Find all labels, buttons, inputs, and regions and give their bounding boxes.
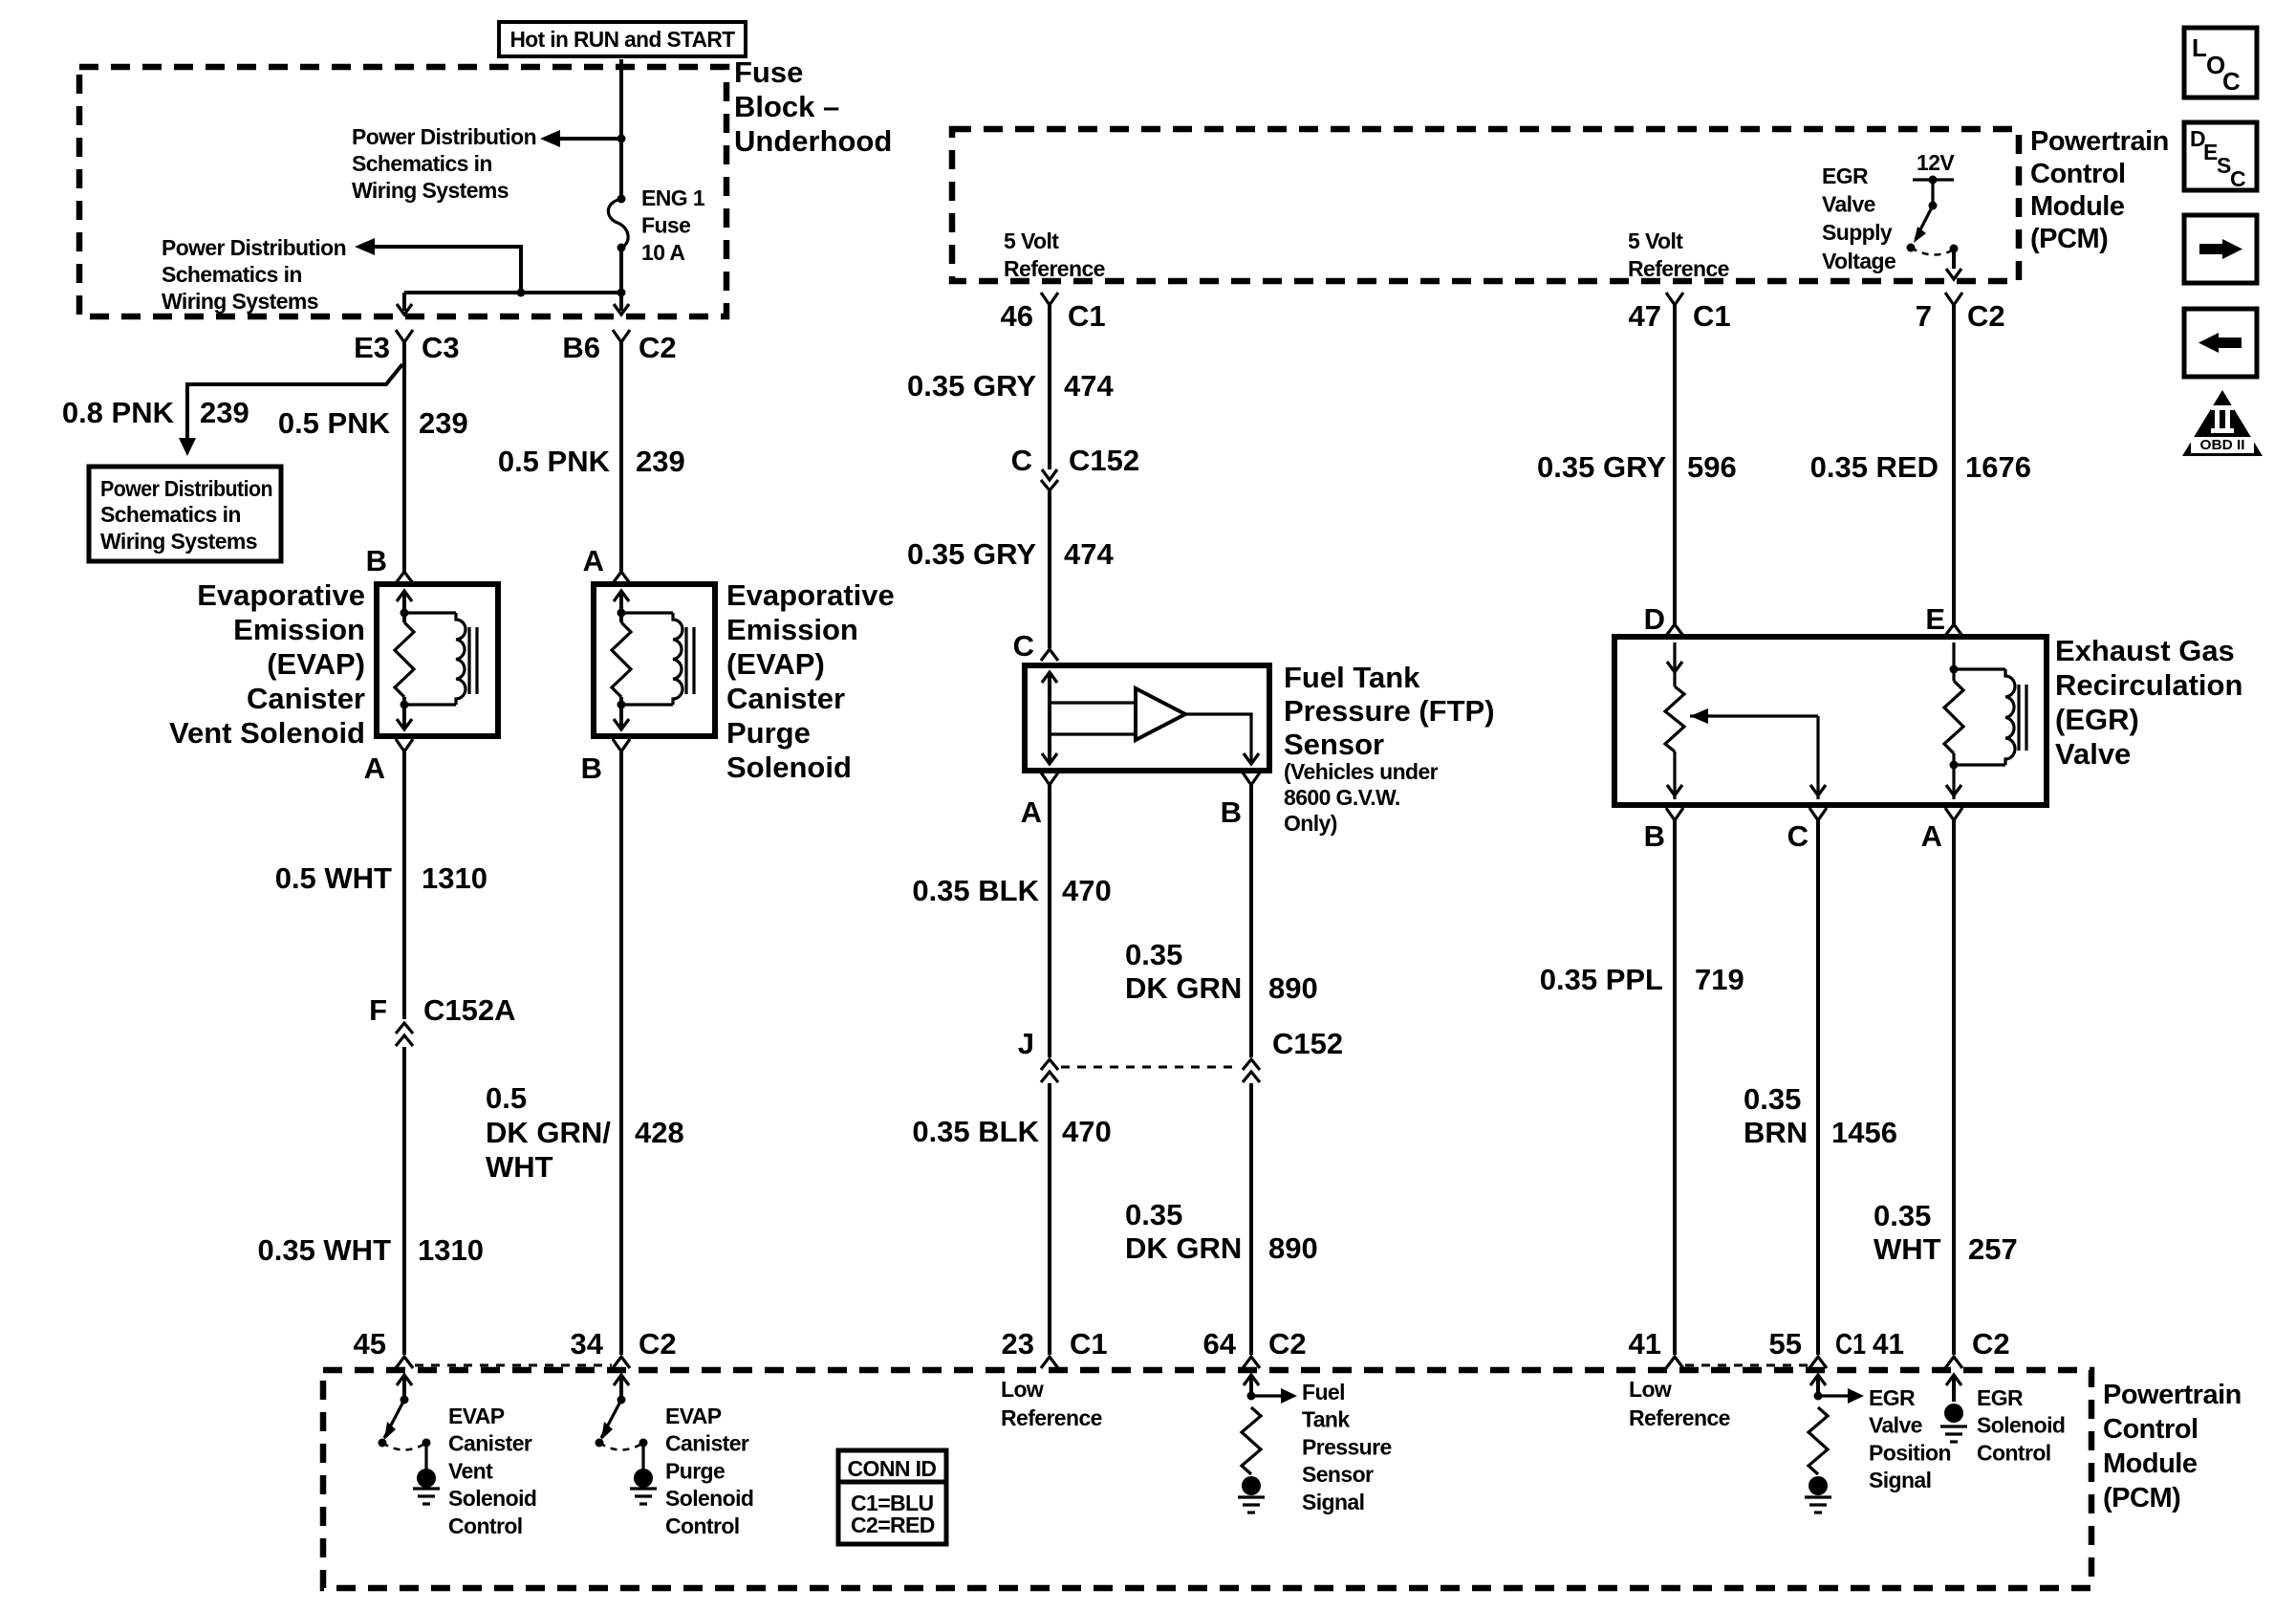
FTP signal junction dot: [1247, 1392, 1256, 1401]
connector dashed link J C152: [1061, 1066, 1240, 1069]
connector pin 34: [613, 1357, 630, 1368]
wire branch to Power Distribution arrow 2: [373, 247, 521, 293]
vent solenoid internal junction dots: [401, 609, 409, 618]
wire 0.35 GRY 474 lower: [1048, 491, 1051, 648]
svg-text:239: 239: [200, 396, 249, 429]
svg-text:257: 257: [1968, 1232, 2018, 1266]
back arrow icon box: [2184, 309, 2257, 377]
vent solenoid core lines: [467, 627, 470, 694]
FTP sensor internal left wire: [1042, 672, 1057, 683]
connector pin 64: [1243, 1357, 1260, 1368]
svg-text:12V: 12V: [1917, 150, 1955, 175]
connector pin A below vent solenoid: [396, 739, 413, 751]
EGR position arrow right: [1818, 1394, 1848, 1397]
svg-text:C1: C1: [1693, 299, 1731, 333]
connector C C152 arrow: [1042, 469, 1057, 480]
EGR solenoid resistor: [1944, 681, 1963, 753]
svg-text:A: A: [1021, 795, 1042, 829]
EGR position ground dot: [1809, 1476, 1828, 1495]
svg-text:(PCM): (PCM): [2030, 224, 2108, 254]
connector J C152 left: [1041, 1059, 1058, 1070]
wire to ground: [641, 1443, 644, 1470]
svg-text:B: B: [366, 544, 387, 577]
connector F C152A: [396, 1023, 413, 1034]
svg-text:64: 64: [1203, 1327, 1237, 1361]
svg-text:Fuel: Fuel: [1302, 1380, 1345, 1404]
wire from fuse down through dashed edge: [619, 293, 623, 311]
ground (FTP signal): [1238, 1495, 1265, 1498]
arrow into connector E3: [397, 304, 412, 315]
vent solenoid resistor: [395, 622, 414, 697]
purge solenoid internal bottom arrow: [614, 719, 629, 729]
purge solenoid internal junction dots: [617, 609, 626, 618]
svg-text:Powertrain: Powertrain: [2103, 1380, 2242, 1410]
svg-text:Wiring Systems: Wiring Systems: [162, 289, 318, 314]
connector pin C into FTP sensor: [1041, 649, 1058, 661]
svg-text:C1: C1: [1068, 299, 1106, 333]
wire PCM control output arrow: [614, 1375, 629, 1385]
svg-text:Canister: Canister: [665, 1431, 749, 1456]
wire 0.35 BRN 1456: [1816, 820, 1820, 1355]
Powertrain Control Module (PCM) top dashed box: [952, 129, 2019, 281]
purge solenoid core lines: [684, 627, 687, 694]
connector pin 45: [396, 1357, 413, 1368]
svg-text:Schematics in: Schematics in: [162, 262, 302, 287]
EGR supply switch fixed dot: [1950, 245, 1959, 253]
12V supply bar: [1913, 178, 1954, 181]
svg-text:Valve: Valve: [2055, 737, 2131, 771]
wire bus left corner down: [402, 293, 406, 311]
svg-text:DK GRN/: DK GRN/: [486, 1116, 611, 1149]
svg-text:0.35 GRY: 0.35 GRY: [1537, 450, 1666, 484]
wire 0.35 GRY 474 upper: [1048, 305, 1051, 469]
wire 0.35 BLK 470 upper: [1048, 785, 1051, 1057]
svg-text:Evaporative: Evaporative: [197, 578, 365, 612]
wire to ground: [424, 1443, 427, 1470]
CONN ID box: [838, 1450, 946, 1544]
svg-text:Power Distribution: Power Distribution: [100, 476, 272, 501]
svg-text:Schematics in: Schematics in: [352, 151, 492, 176]
svg-text:Voltage: Voltage: [1822, 249, 1895, 273]
svg-text:0.35 PPL: 0.35 PPL: [1540, 963, 1663, 996]
svg-text:Only): Only): [1284, 811, 1337, 836]
svg-text:Reference: Reference: [1628, 256, 1729, 281]
EGR position sense resistor branch: [1673, 642, 1676, 686]
svg-text:C3: C3: [422, 331, 460, 364]
svg-text:Control: Control: [2030, 159, 2126, 189]
EGR solenoid coil: [1954, 667, 2005, 670]
connector pin 41 C2: [1945, 1357, 1962, 1368]
svg-text:Emission: Emission: [233, 613, 365, 646]
EGR supply switch blade: [1916, 206, 1933, 239]
EGR position junction dot: [1814, 1392, 1823, 1401]
svg-text:E3: E3: [354, 331, 390, 364]
EGR wiper arrow: [1690, 714, 1818, 717]
EVAP canister purge solenoid box: [594, 584, 715, 736]
wire 0.35 WHT 257: [1952, 820, 1956, 1355]
FTP sensor amplifier triangle: [1136, 688, 1185, 740]
EGR supply switch blade end dot: [1907, 244, 1916, 252]
junction dot bus mid: [517, 289, 526, 297]
wire branch 0.8 PNK to Power Distribution box: [187, 364, 402, 440]
connector pin 55: [1809, 1357, 1827, 1368]
svg-text:A: A: [1921, 819, 1942, 853]
svg-text:0.8 PNK: 0.8 PNK: [62, 396, 175, 429]
svg-text:34: 34: [571, 1327, 604, 1361]
svg-text:Valve: Valve: [1822, 192, 1875, 217]
ground terminal dot: [417, 1469, 436, 1488]
svg-text:Solenoid: Solenoid: [1977, 1413, 2065, 1438]
purge solenoid coil: [621, 611, 673, 614]
svg-text:47: 47: [1629, 299, 1661, 333]
svg-text:Solenoid: Solenoid: [665, 1486, 753, 1511]
svg-text:Power Distribution: Power Distribution: [162, 235, 346, 260]
switch contact dot (fixed): [422, 1439, 431, 1448]
vent solenoid internal bottom arrow: [397, 719, 412, 729]
svg-text:B: B: [1644, 819, 1665, 853]
svg-text:0.35 GRY: 0.35 GRY: [907, 537, 1036, 571]
svg-text:Low: Low: [1629, 1377, 1672, 1402]
arrow into connector B6: [614, 304, 629, 315]
svg-text:Hot in RUN and START: Hot in RUN and START: [510, 27, 736, 52]
svg-text:0.35: 0.35: [1874, 1199, 1931, 1232]
connector dashed link 41-55: [1685, 1364, 1809, 1367]
svg-text:C: C: [1011, 444, 1032, 477]
EGR solenoid control ground dot: [1944, 1404, 1963, 1423]
svg-text:S: S: [2217, 153, 2231, 178]
wire 0.35 PPL 719: [1673, 820, 1677, 1355]
svg-text:C2: C2: [639, 1327, 677, 1361]
svg-text:5 Volt: 5 Volt: [1004, 229, 1059, 253]
OBD II triangle icon: [2182, 390, 2263, 456]
svg-text:1456: 1456: [1831, 1116, 1897, 1149]
svg-text:46: 46: [1001, 299, 1033, 333]
connector J C152 right: [1243, 1059, 1260, 1070]
LOC icon box: [2184, 28, 2257, 98]
svg-text:C2: C2: [1972, 1327, 2010, 1361]
svg-text:Solenoid: Solenoid: [726, 751, 852, 784]
svg-text:B6: B6: [562, 331, 600, 364]
switch contact dot (fixed): [639, 1439, 648, 1448]
svg-text:DK GRN: DK GRN: [1125, 971, 1242, 1005]
switch pivot dot: [401, 1396, 409, 1404]
wire to Power Distribution arrow 1: [558, 137, 621, 141]
svg-text:55: 55: [1769, 1327, 1802, 1361]
svg-text:8600 G.V.W.: 8600 G.V.W.: [1284, 785, 1400, 810]
svg-text:C1: C1: [1835, 1327, 1866, 1361]
svg-text:EGR: EGR: [1977, 1385, 2024, 1410]
svg-text:0.5 PNK: 0.5 PNK: [278, 406, 391, 440]
EVAP canister vent solenoid box: [377, 584, 498, 736]
svg-text:C152A: C152A: [423, 993, 516, 1027]
svg-text:41: 41: [1873, 1327, 1904, 1361]
svg-text:Sensor: Sensor: [1302, 1462, 1374, 1487]
svg-text:23: 23: [1002, 1327, 1034, 1361]
switch pivot dot: [617, 1396, 626, 1404]
svg-text:B: B: [1221, 795, 1242, 829]
svg-text:Reference: Reference: [1004, 256, 1105, 281]
svg-text:0.5 WHT: 0.5 WHT: [275, 861, 392, 895]
svg-text:C1: C1: [1070, 1327, 1108, 1361]
junction dot feed: [617, 135, 626, 143]
connector pin 46 C1: [1041, 293, 1058, 305]
wire from fuse to bus: [619, 248, 623, 293]
svg-text:(EVAP): (EVAP): [726, 647, 825, 681]
connector B6 C2: [613, 330, 630, 342]
wire from Hot in RUN and START down to fuse: [619, 59, 623, 197]
svg-text:890: 890: [1268, 1231, 1318, 1265]
DESC icon box: [2184, 122, 2257, 190]
svg-text:Schematics in: Schematics in: [100, 502, 241, 527]
Hot in RUN and START box: [499, 22, 746, 56]
svg-text:0.5: 0.5: [486, 1081, 527, 1115]
svg-text:Canister: Canister: [247, 682, 365, 715]
svg-text:C2: C2: [1967, 299, 2005, 333]
svg-text:596: 596: [1687, 450, 1737, 484]
svg-text:10 A: 10 A: [641, 240, 684, 265]
svg-text:Fuse: Fuse: [734, 55, 803, 89]
svg-text:0.35 BLK: 0.35 BLK: [912, 1115, 1039, 1148]
svg-text:B: B: [581, 751, 602, 785]
svg-text:Exhaust Gas: Exhaust Gas: [2055, 634, 2235, 667]
svg-text:Signal: Signal: [1302, 1490, 1364, 1514]
svg-text:C: C: [1013, 629, 1034, 663]
svg-text:5 Volt: 5 Volt: [1628, 229, 1683, 253]
switch blade with arrowhead: [601, 1400, 621, 1438]
svg-text:Module: Module: [2030, 191, 2125, 222]
ground terminal dot: [634, 1469, 653, 1488]
connector dashed link 45-34: [415, 1364, 612, 1367]
svg-text:0.35 WHT: 0.35 WHT: [257, 1233, 391, 1267]
bus wire to EVAP solenoids: [404, 291, 621, 294]
svg-text:Solenoid: Solenoid: [448, 1486, 536, 1511]
svg-text:Tank: Tank: [1302, 1407, 1350, 1432]
wire 0.35 GRY 596: [1673, 305, 1677, 624]
svg-text:Recirculation: Recirculation: [2055, 668, 2242, 702]
svg-text:C: C: [2230, 166, 2245, 191]
svg-text:Module: Module: [2103, 1448, 2198, 1479]
svg-text:C2: C2: [1268, 1327, 1307, 1361]
svg-text:(EVAP): (EVAP): [267, 647, 365, 681]
svg-text:Purge: Purge: [726, 716, 811, 750]
svg-text:Pressure: Pressure: [1302, 1434, 1392, 1459]
svg-text:1310: 1310: [422, 861, 487, 895]
svg-text:L: L: [2192, 33, 2207, 62]
connector pin 41: [1666, 1357, 1683, 1368]
svg-text:45: 45: [354, 1327, 386, 1361]
wire 0.5 DK GRN/WHT 428: [619, 751, 623, 1355]
EGR supply switch dashed arc: [1911, 248, 1954, 255]
svg-text:WHT: WHT: [1874, 1232, 1941, 1266]
arrow to Power Distribution (left) 1: [540, 130, 560, 147]
connector E3 C3: [396, 330, 413, 342]
purge solenoid resistor: [612, 622, 631, 697]
svg-text:0.35 RED: 0.35 RED: [1810, 450, 1939, 484]
svg-text:C152: C152: [1069, 444, 1139, 477]
connector C C152 chevron: [1041, 480, 1058, 490]
svg-text:0.5 PNK: 0.5 PNK: [498, 445, 611, 478]
svg-text:474: 474: [1064, 369, 1114, 403]
svg-text:Control: Control: [1977, 1440, 2051, 1465]
purge solenoid internal wire top arrow: [614, 591, 629, 601]
EGR valve position signal arrow: [1810, 1375, 1826, 1385]
EGR solenoid control arrow: [1946, 1375, 1961, 1385]
svg-text:470: 470: [1062, 874, 1112, 907]
connector pin 7 C2: [1945, 293, 1962, 305]
switch contact dot (blade end): [379, 1439, 387, 1448]
svg-text:Reference: Reference: [1001, 1405, 1102, 1430]
svg-text:(Vehicles under: (Vehicles under: [1284, 759, 1439, 784]
svg-text:Low: Low: [1001, 1377, 1044, 1402]
connector pin A into purge solenoid: [613, 572, 630, 583]
connector pin A below EGR: [1945, 808, 1962, 820]
connector pin B into vent solenoid: [396, 572, 413, 583]
svg-text:C2: C2: [639, 331, 677, 364]
svg-text:EGR: EGR: [1869, 1385, 1916, 1410]
wire 0.5 WHT 1310: [402, 751, 406, 1019]
svg-text:0.35 BLK: 0.35 BLK: [912, 874, 1039, 907]
svg-text:Control: Control: [448, 1513, 523, 1538]
Power Distribution Schematics box: [89, 467, 281, 561]
svg-text:1676: 1676: [1965, 450, 2031, 484]
svg-text:239: 239: [419, 406, 468, 440]
svg-text:Control: Control: [665, 1513, 740, 1538]
switch blade with arrowhead: [384, 1400, 404, 1438]
EGR wiper wire down: [1816, 716, 1819, 799]
svg-text:Powertrain: Powertrain: [2030, 126, 2169, 157]
svg-text:Underhood: Underhood: [734, 124, 892, 158]
FTP sensor signal input arrow: [1244, 1375, 1259, 1385]
switch throw dashed arc: [382, 1443, 426, 1450]
svg-text:C2=RED: C2=RED: [851, 1513, 935, 1537]
EGR supply switch pivot dot: [1929, 202, 1938, 210]
svg-text:EGR: EGR: [1822, 163, 1869, 188]
EGR solenoid branch: [1952, 642, 1955, 681]
svg-text:0.35: 0.35: [1744, 1082, 1801, 1116]
svg-text:470: 470: [1062, 1115, 1112, 1148]
svg-text:DK GRN: DK GRN: [1125, 1231, 1242, 1265]
wire PCM control output arrow: [397, 1375, 412, 1385]
svg-text:Purge: Purge: [665, 1458, 725, 1483]
FTP signal pull resistor: [1242, 1407, 1261, 1474]
Powertrain Control Module (PCM) bottom dashed box: [323, 1370, 2091, 1588]
svg-text:Canister: Canister: [448, 1431, 532, 1456]
svg-text:C: C: [2222, 67, 2241, 96]
svg-text:719: 719: [1695, 963, 1744, 996]
svg-text:Wiring Systems: Wiring Systems: [352, 178, 509, 203]
FTP signal arrow right: [1251, 1394, 1281, 1397]
switch contact dot (blade end): [596, 1439, 604, 1448]
vent solenoid internal wire top arrow: [397, 591, 412, 601]
svg-text:Vent: Vent: [448, 1458, 493, 1483]
svg-text:(EGR): (EGR): [2055, 703, 2139, 736]
connector pin B below FTP: [1243, 773, 1260, 785]
wire from switch to pin 7: [1952, 249, 1956, 269]
arrow to Power Distribution (left) 2: [355, 238, 375, 255]
svg-text:Pressure (FTP): Pressure (FTP): [1284, 694, 1495, 728]
ground: [413, 1487, 440, 1490]
svg-text:C152: C152: [1272, 1027, 1343, 1060]
connector pin B below EGR: [1666, 808, 1683, 820]
ground: [630, 1487, 657, 1490]
svg-text:0.35: 0.35: [1125, 938, 1182, 971]
svg-text:A: A: [583, 544, 604, 577]
svg-text:BRN: BRN: [1744, 1116, 1808, 1149]
ground (EGR position): [1805, 1495, 1831, 1498]
svg-text:Power Distribution: Power Distribution: [352, 124, 536, 149]
connector pin C below EGR: [1809, 808, 1827, 820]
svg-text:Supply: Supply: [1822, 220, 1893, 245]
forward arrow icon box: [2184, 215, 2257, 283]
Exhaust Gas Recirculation (EGR) valve box: [1614, 637, 2047, 805]
vent solenoid coil: [404, 611, 456, 614]
svg-text:7: 7: [1916, 299, 1932, 333]
connector pin 47 C1: [1666, 293, 1683, 305]
FTP sensor amplifier input stubs: [1050, 701, 1136, 704]
svg-text:Control: Control: [2103, 1414, 2199, 1445]
svg-text:Canister: Canister: [726, 682, 845, 715]
svg-text:Fuel Tank: Fuel Tank: [1284, 661, 1420, 694]
svg-text:0.35: 0.35: [1125, 1198, 1182, 1231]
wire 0.35 DK GRN 890 upper: [1249, 785, 1253, 1057]
Fuel Tank Pressure sensor box: [1025, 665, 1269, 771]
svg-text:(PCM): (PCM): [2103, 1483, 2180, 1513]
Fuse Block - Underhood dashed box: [79, 67, 726, 316]
svg-text:Sensor: Sensor: [1284, 728, 1384, 761]
svg-text:EVAP: EVAP: [665, 1404, 722, 1428]
svg-text:ENG 1: ENG 1: [641, 185, 705, 210]
svg-text:Emission: Emission: [726, 613, 858, 646]
svg-text:428: 428: [635, 1116, 684, 1149]
wire 0.35 RED 1676: [1952, 305, 1956, 624]
EGR position pull resistor: [1809, 1407, 1828, 1474]
svg-text:WHT: WHT: [486, 1150, 553, 1184]
svg-text:C: C: [1787, 819, 1809, 853]
svg-text:239: 239: [636, 445, 685, 478]
svg-text:J: J: [1018, 1027, 1034, 1060]
svg-text:0.35 GRY: 0.35 GRY: [907, 369, 1036, 403]
FTP sensor output wire: [1185, 714, 1251, 763]
EGR solenoid core lines: [2017, 685, 2020, 751]
FTP signal ground dot: [1242, 1476, 1261, 1495]
svg-text:A: A: [364, 751, 385, 785]
svg-text:E: E: [2203, 140, 2218, 164]
connector pin A below FTP: [1041, 773, 1058, 785]
svg-text:Wiring Systems: Wiring Systems: [100, 529, 257, 554]
svg-text:Block –: Block –: [734, 90, 839, 123]
svg-text:Evaporative: Evaporative: [726, 578, 895, 612]
svg-text:Fuse: Fuse: [641, 213, 690, 238]
svg-text:EVAP: EVAP: [448, 1404, 505, 1428]
svg-text:41: 41: [1629, 1327, 1661, 1361]
svg-text:F: F: [369, 993, 387, 1027]
arrow down to Power Distribution box: [179, 438, 196, 456]
EGR solenoid junction dots: [1950, 665, 1959, 674]
arrow into pin 7: [1946, 269, 1961, 279]
junction dot bus right: [617, 289, 626, 297]
svg-text:D: D: [1644, 602, 1665, 636]
connector pin D into EGR valve: [1666, 624, 1683, 636]
svg-text:Valve: Valve: [1869, 1413, 1922, 1438]
svg-text:Reference: Reference: [1629, 1405, 1730, 1430]
connector pin E into EGR valve: [1945, 624, 1962, 636]
connector pin 23: [1041, 1357, 1058, 1368]
svg-text:890: 890: [1268, 971, 1318, 1005]
12V supply dot: [1929, 176, 1938, 185]
svg-text:474: 474: [1064, 537, 1114, 571]
svg-text:CONN ID: CONN ID: [848, 1456, 937, 1481]
fuse ENG 1 10A symbol: [617, 195, 626, 204]
